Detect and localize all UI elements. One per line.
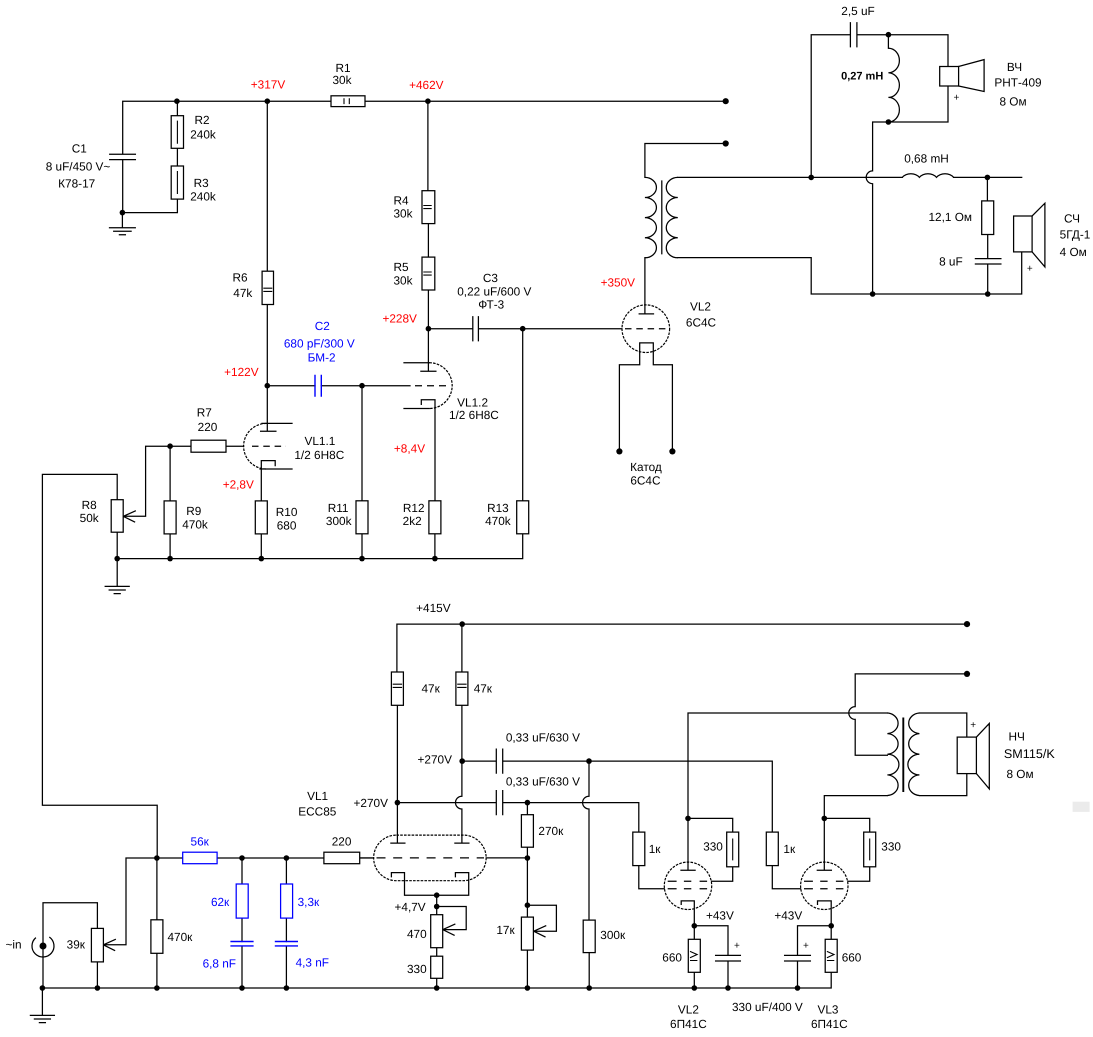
- svg-text:VL2: VL2: [678, 1002, 699, 1016]
- svg-text:R8: R8: [82, 498, 98, 512]
- svg-text:6,8 nF: 6,8 nF: [203, 956, 236, 970]
- svg-text:470k: 470k: [182, 518, 208, 532]
- svg-text:VL2: VL2: [690, 300, 711, 314]
- svg-text:0,33 uF/630 V: 0,33 uF/630 V: [506, 775, 580, 789]
- svg-text:4 Ом: 4 Ом: [1060, 245, 1087, 259]
- svg-text:+: +: [970, 720, 976, 731]
- svg-text:1к: 1к: [649, 842, 662, 856]
- svg-text:R7: R7: [197, 405, 212, 419]
- svg-text:+4,7V: +4,7V: [395, 900, 426, 914]
- svg-text:+350V: +350V: [601, 276, 636, 290]
- svg-text:+228V: +228V: [382, 312, 417, 326]
- svg-text:R9: R9: [186, 504, 201, 518]
- svg-text:+43V: +43V: [774, 908, 802, 922]
- svg-text:РНТ-409: РНТ-409: [994, 75, 1041, 89]
- svg-text:2,5 uF: 2,5 uF: [841, 4, 874, 18]
- svg-text:2k2: 2k2: [403, 514, 422, 528]
- svg-text:+2,8V: +2,8V: [223, 478, 254, 492]
- svg-text:C1: C1: [72, 141, 87, 155]
- svg-text:220: 220: [332, 835, 352, 849]
- svg-text:680 pF/300 V: 680 pF/300 V: [284, 337, 355, 351]
- svg-text:5ГД-1: 5ГД-1: [1060, 228, 1091, 242]
- svg-text:6П41С: 6П41С: [811, 1017, 848, 1031]
- svg-text:БМ-2: БМ-2: [308, 351, 336, 365]
- svg-text:470k: 470k: [485, 514, 511, 528]
- svg-text:VL3: VL3: [818, 1002, 839, 1016]
- svg-text:0,22 uF/600 V: 0,22 uF/600 V: [457, 285, 531, 299]
- svg-text:470: 470: [407, 927, 427, 941]
- svg-text:+270V: +270V: [354, 796, 389, 810]
- svg-text:330: 330: [881, 839, 901, 853]
- svg-text:SM115/K: SM115/K: [1004, 747, 1055, 761]
- svg-text:62к: 62к: [211, 895, 230, 909]
- svg-text:270к: 270к: [538, 824, 564, 838]
- svg-text:C2: C2: [315, 319, 330, 333]
- svg-text:56к: 56к: [191, 835, 210, 849]
- svg-text:+415V: +415V: [416, 601, 451, 615]
- svg-text:+: +: [953, 92, 959, 103]
- svg-text:6С4С: 6С4С: [686, 315, 717, 329]
- svg-text:НЧ: НЧ: [1009, 730, 1025, 744]
- svg-text:+: +: [803, 940, 809, 951]
- svg-text:330 uF/400 V: 330 uF/400 V: [732, 1000, 803, 1014]
- svg-text:R6: R6: [232, 270, 248, 284]
- svg-text:30k: 30k: [393, 206, 412, 220]
- svg-text:~in: ~in: [6, 938, 22, 952]
- svg-text:C3: C3: [483, 271, 499, 285]
- svg-text:ФТ-3: ФТ-3: [478, 298, 504, 312]
- svg-text:8 Ом: 8 Ом: [1006, 767, 1033, 781]
- svg-text:470к: 470к: [168, 930, 194, 944]
- svg-text:4,3 nF: 4,3 nF: [296, 955, 329, 969]
- svg-text:VL1.1: VL1.1: [304, 434, 335, 448]
- svg-text:0,68 mH: 0,68 mH: [904, 152, 949, 166]
- svg-text:680: 680: [277, 519, 297, 533]
- svg-text:6С4С: 6С4С: [630, 473, 661, 487]
- svg-text:12,1 Ом: 12,1 Ом: [928, 210, 972, 224]
- svg-text:0,33 uF/630 V: 0,33 uF/630 V: [506, 730, 580, 744]
- svg-text:+122V: +122V: [224, 365, 259, 379]
- svg-text:300к: 300к: [600, 928, 626, 942]
- svg-text:47к: 47к: [422, 682, 441, 696]
- svg-text:R2: R2: [194, 113, 209, 127]
- svg-text:R5: R5: [393, 260, 409, 274]
- svg-text:240k: 240k: [190, 128, 216, 142]
- svg-text:+317V: +317V: [251, 77, 286, 91]
- svg-text:8 Ом: 8 Ом: [999, 95, 1026, 109]
- svg-text:1/2 6Н8С: 1/2 6Н8С: [449, 408, 499, 422]
- svg-text:50k: 50k: [80, 511, 99, 525]
- svg-text:240k: 240k: [190, 190, 216, 204]
- svg-text:39к: 39к: [67, 938, 86, 952]
- svg-text:30k: 30k: [332, 73, 351, 87]
- svg-text:8 uF/450 V~: 8 uF/450 V~: [46, 160, 111, 174]
- svg-text:660: 660: [842, 950, 862, 964]
- svg-text:СЧ: СЧ: [1064, 211, 1080, 225]
- svg-text:330: 330: [407, 962, 427, 976]
- svg-text:1к: 1к: [783, 842, 796, 856]
- svg-text:660: 660: [662, 950, 682, 964]
- svg-text:ВЧ: ВЧ: [1007, 60, 1022, 74]
- svg-text:8 uF: 8 uF: [939, 255, 963, 269]
- svg-text:+462V: +462V: [409, 78, 444, 92]
- svg-text:+: +: [734, 940, 740, 951]
- svg-text:300k: 300k: [326, 514, 352, 528]
- svg-text:47к: 47к: [474, 682, 493, 696]
- svg-text:47k: 47k: [233, 286, 252, 300]
- svg-text:+: +: [1027, 264, 1033, 275]
- svg-text:+43V: +43V: [706, 908, 734, 922]
- svg-text:R3: R3: [194, 176, 210, 190]
- svg-text:R10: R10: [276, 505, 298, 519]
- svg-text:Катод: Катод: [630, 460, 662, 474]
- svg-text:330: 330: [703, 839, 723, 853]
- svg-text:+270V: +270V: [418, 753, 453, 767]
- svg-text:ЕСС85: ЕСС85: [298, 805, 336, 819]
- svg-text:6П41С: 6П41С: [670, 1017, 707, 1031]
- svg-text:17к: 17к: [496, 923, 515, 937]
- svg-text:0,27 mH: 0,27 mH: [841, 71, 883, 83]
- svg-text:1/2 6Н8С: 1/2 6Н8С: [294, 448, 344, 462]
- svg-text:VL1: VL1: [307, 789, 328, 803]
- svg-text:220: 220: [198, 420, 218, 434]
- svg-text:+8,4V: +8,4V: [394, 441, 425, 455]
- svg-text:3,3к: 3,3к: [298, 895, 320, 909]
- svg-text:30k: 30k: [393, 273, 412, 287]
- svg-text:К78-17: К78-17: [58, 177, 95, 191]
